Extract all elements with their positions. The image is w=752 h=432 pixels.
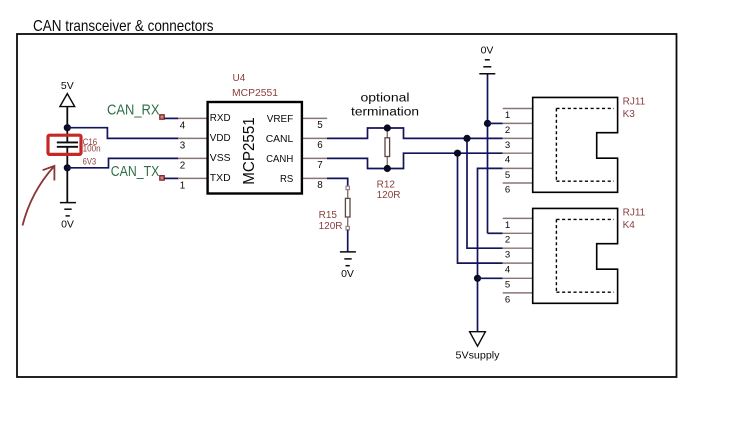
svg-text:4: 4: [505, 265, 511, 276]
svg-text:2: 2: [505, 235, 510, 246]
svg-text:R15: R15: [319, 210, 338, 221]
svg-text:CAN_TX: CAN_TX: [111, 163, 160, 180]
svg-text:optional: optional: [361, 92, 410, 104]
svg-text:5: 5: [505, 280, 510, 291]
svg-text:2: 2: [180, 160, 185, 171]
svg-text:0V: 0V: [341, 268, 354, 280]
svg-text:CANL: CANL: [266, 133, 294, 145]
svg-text:CANH: CANH: [266, 153, 293, 165]
svg-text:6: 6: [317, 140, 323, 151]
svg-text:5: 5: [317, 120, 323, 131]
svg-text:MCP2551: MCP2551: [241, 117, 258, 185]
svg-text:4: 4: [505, 155, 511, 166]
svg-text:termination: termination: [351, 107, 419, 119]
svg-text:3: 3: [505, 250, 510, 261]
svg-text:7: 7: [317, 160, 322, 171]
svg-text:1: 1: [505, 220, 510, 231]
svg-text:RJ11: RJ11: [623, 96, 646, 107]
svg-text:CAN transceiver & connectors: CAN transceiver & connectors: [33, 18, 214, 35]
svg-text:RJ11: RJ11: [623, 207, 646, 218]
svg-text:RXD: RXD: [210, 112, 231, 124]
svg-text:1: 1: [180, 180, 185, 191]
svg-text:MCP2551: MCP2551: [232, 88, 278, 99]
svg-text:3: 3: [505, 140, 510, 151]
svg-text:0V: 0V: [61, 218, 74, 230]
svg-text:6: 6: [505, 294, 510, 305]
svg-text:VDD: VDD: [210, 132, 231, 144]
svg-text:0V: 0V: [481, 44, 494, 56]
svg-text:100n: 100n: [83, 144, 101, 154]
svg-text:CAN_RX: CAN_RX: [107, 102, 160, 119]
svg-text:U4: U4: [233, 73, 246, 84]
svg-text:RS: RS: [280, 173, 293, 185]
svg-text:VREF: VREF: [267, 113, 294, 125]
svg-text:5: 5: [505, 170, 510, 181]
svg-text:6: 6: [505, 184, 510, 195]
svg-text:6V3: 6V3: [83, 156, 97, 166]
svg-text:1: 1: [505, 110, 510, 121]
svg-text:5Vsupply: 5Vsupply: [456, 349, 501, 361]
svg-text:TXD: TXD: [210, 172, 231, 184]
svg-text:R12: R12: [377, 180, 396, 191]
svg-text:4: 4: [180, 120, 186, 131]
svg-text:VSS: VSS: [210, 152, 231, 164]
svg-text:120R: 120R: [319, 221, 343, 232]
svg-text:120R: 120R: [377, 190, 401, 201]
svg-text:8: 8: [317, 180, 323, 191]
svg-text:3: 3: [180, 140, 186, 151]
svg-text:K4: K4: [623, 220, 636, 231]
svg-text:K3: K3: [623, 109, 636, 120]
svg-text:2: 2: [505, 125, 510, 136]
svg-text:5V: 5V: [61, 80, 74, 92]
